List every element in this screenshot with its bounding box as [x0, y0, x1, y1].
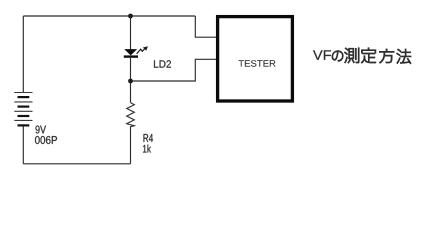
TESTER box	[218, 17, 293, 101]
label TESTER	[239, 60, 276, 66]
label 006P	[35, 136, 57, 144]
label VF	[313, 50, 331, 59]
wire LED branch top	[130, 16, 132, 50]
wire top horizontal	[23, 15, 195, 17]
kanji 定	[361, 48, 376, 64]
wire lower terminal from junction to TESTER	[131, 59, 217, 81]
label LD2	[154, 60, 171, 67]
kanji 方	[379, 49, 394, 63]
wire battery bottom to bottom rail	[22, 126, 24, 164]
junction node top	[128, 14, 133, 19]
label 9V	[36, 126, 47, 134]
wire left vertical	[22, 16, 24, 93]
label R4	[144, 134, 154, 142]
battery BT1 9V 006P	[14, 93, 32, 126]
resistor R4 zigzag	[127, 103, 135, 127]
LED LD2	[124, 46, 148, 56]
kanji 法	[397, 49, 412, 64]
label 1k	[143, 145, 151, 153]
wire LED cathode to junction	[130, 58, 132, 103]
kanji 測	[344, 48, 359, 64]
wire upper terminal step to TESTER	[195, 16, 216, 37]
text VFの測定方法 (kanji paths)	[332, 48, 411, 64]
wire resistor bottom vertical	[130, 127, 132, 164]
junction node below LED	[128, 79, 133, 84]
kanji の	[332, 51, 343, 62]
wire bottom horizontal	[23, 163, 130, 165]
